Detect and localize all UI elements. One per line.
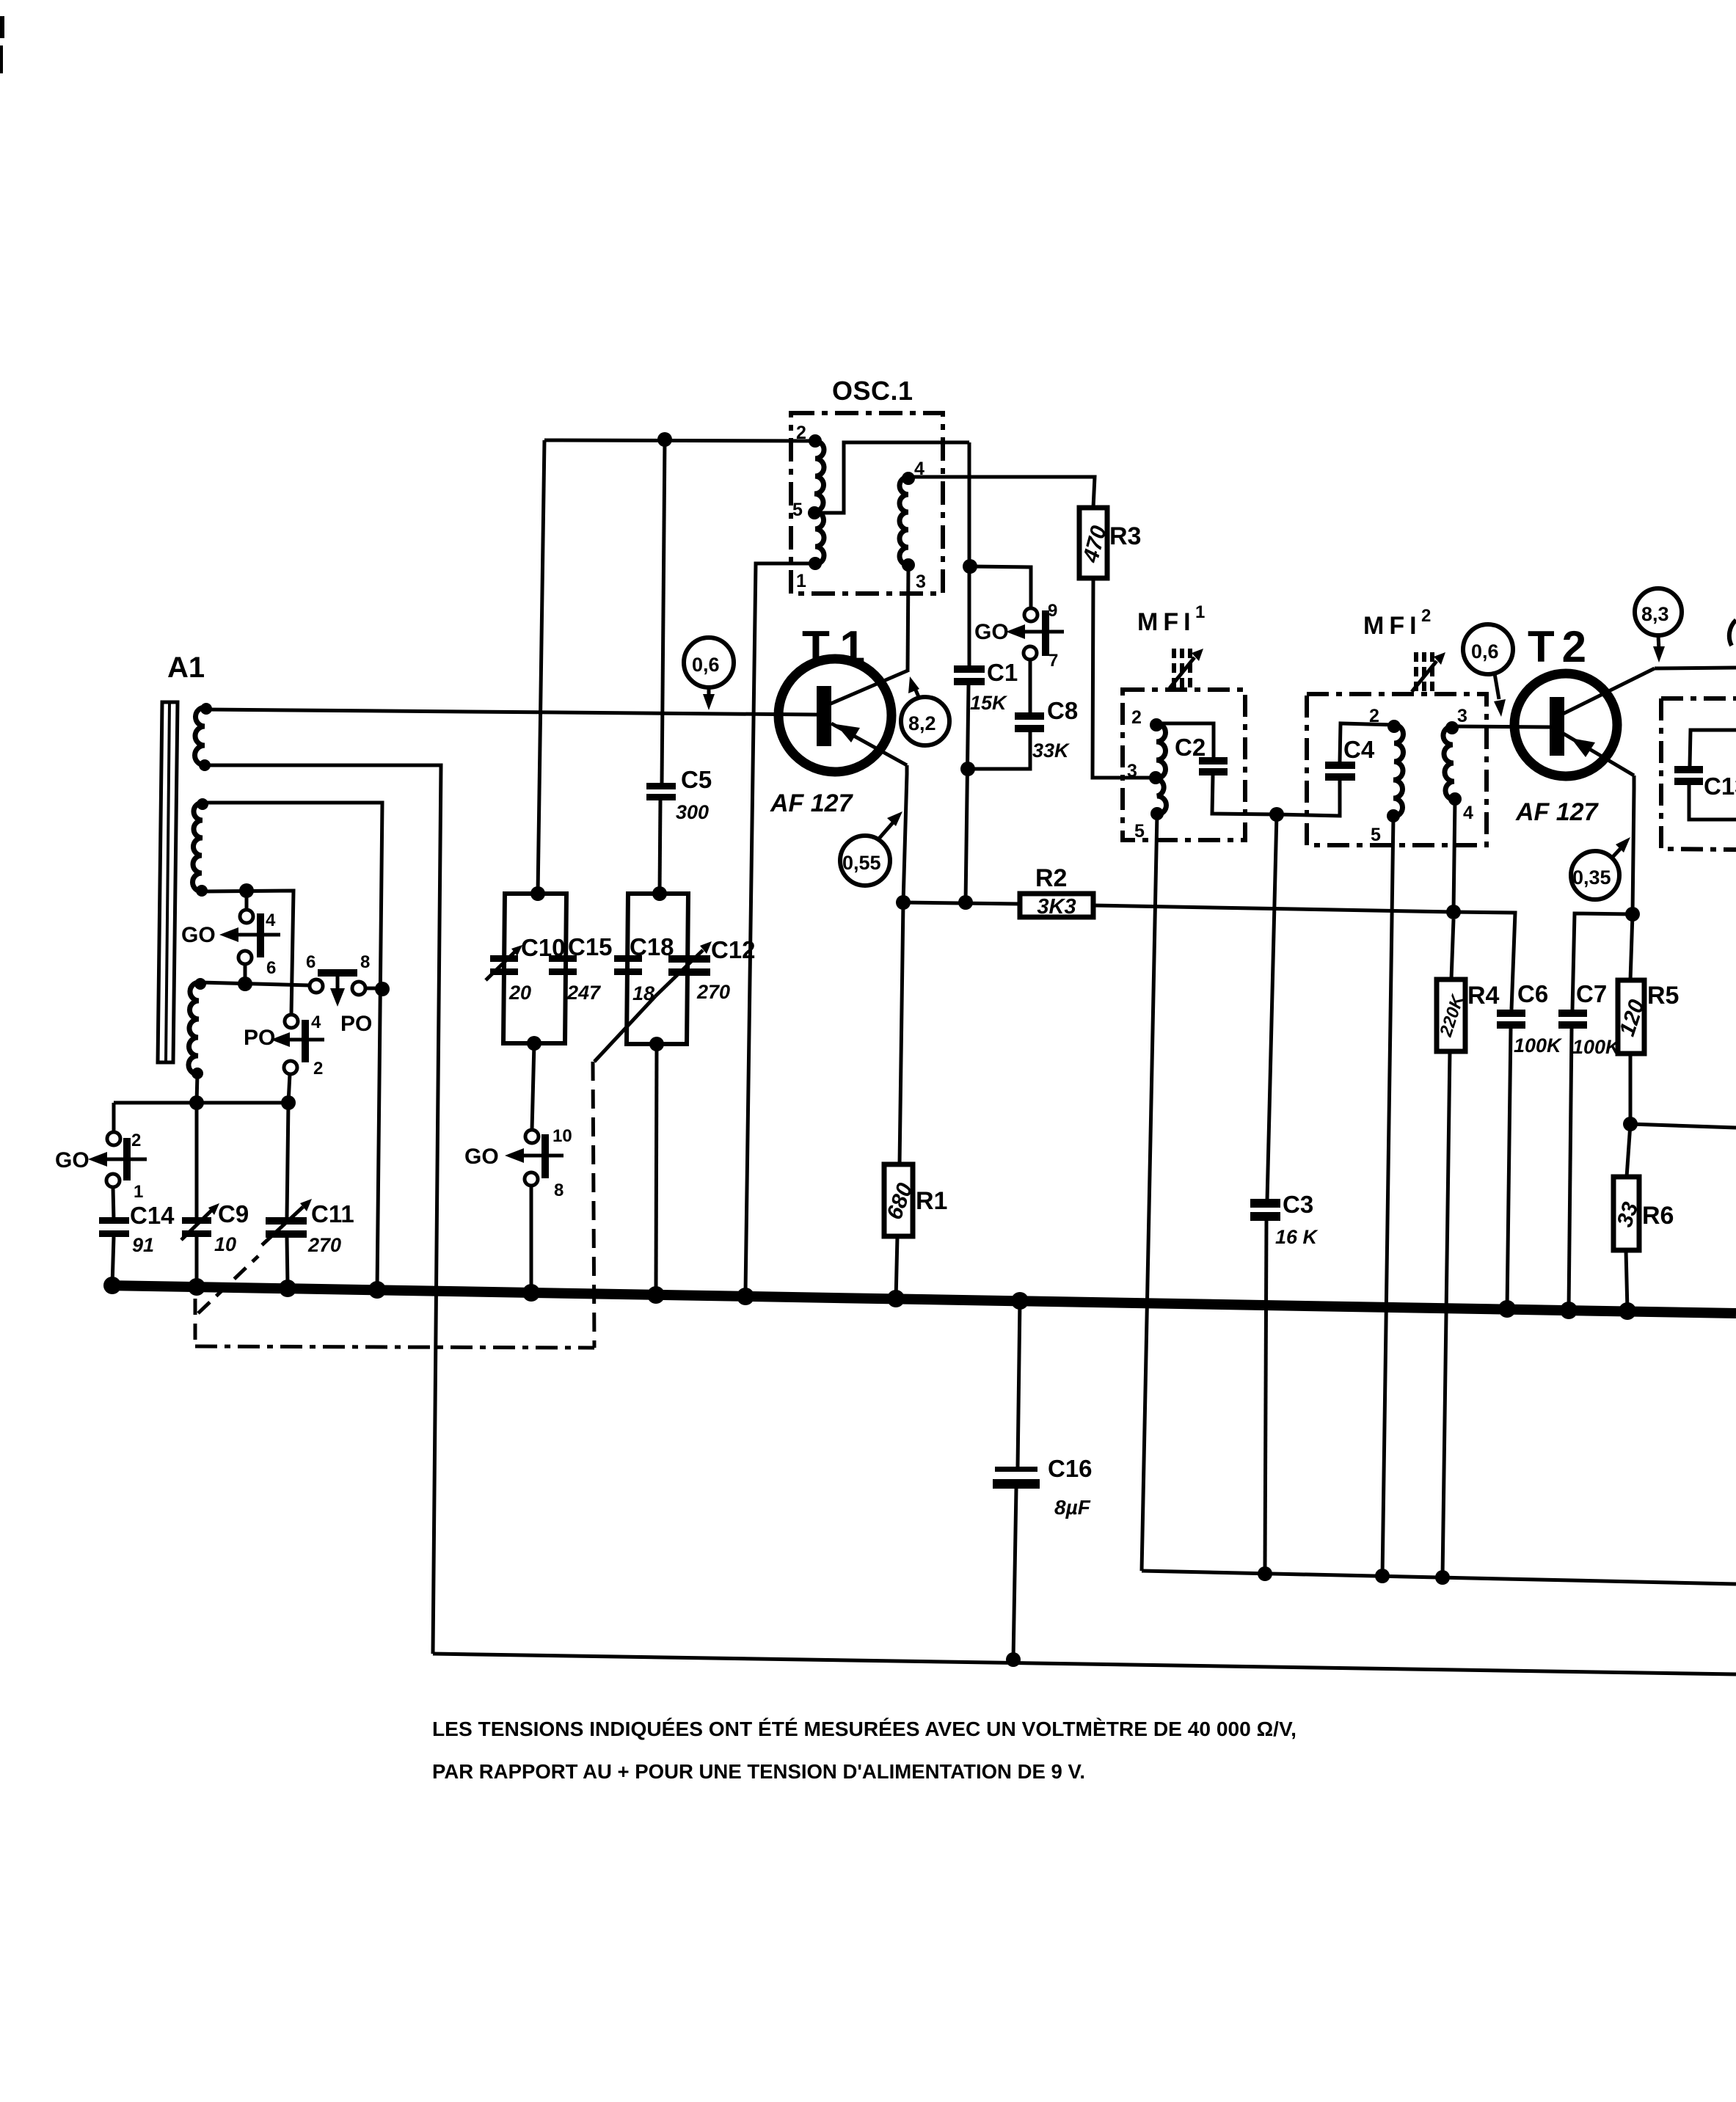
svg-text:247: 247 — [566, 982, 602, 1004]
svg-text:0,6: 0,6 — [692, 654, 720, 676]
MFI2 primary coil pins 2-5 — [1393, 725, 1404, 817]
svg-text:91: 91 — [132, 1234, 154, 1256]
MFI1 tuning slug — [1170, 649, 1203, 690]
wire T1 collector riser — [906, 671, 910, 672]
svg-text:5: 5 — [792, 500, 803, 520]
svg-text:C5: C5 — [681, 766, 712, 793]
capacitor C4 — [1325, 736, 1375, 781]
svg-text:3K3: 3K3 — [1037, 895, 1076, 919]
wire PO-8 to vertical — [365, 987, 382, 990]
wire C9 to bus — [195, 1237, 199, 1285]
wire inter-MFI node down through C3 — [1267, 814, 1277, 1200]
gang link dashed right riser — [593, 1062, 594, 1348]
wire T1 emitter down — [903, 765, 907, 902]
svg-text:MFI: MFI — [1363, 612, 1422, 640]
svg-text:5: 5 — [1134, 821, 1145, 842]
bus node PO feed — [368, 1281, 386, 1299]
wire emitter row to R2 — [903, 902, 1020, 904]
voltage 0,6 at T2 base — [1463, 624, 1513, 717]
switch GO (contacts 4/6) — [181, 910, 280, 978]
wire OSC1 pin3 to T1 collector riser — [908, 565, 908, 671]
bus node C16 — [1011, 1292, 1029, 1310]
svg-text:300: 300 — [676, 801, 709, 823]
wire node to R6 — [1627, 1124, 1630, 1177]
voltage 0,55 at T1 emitter lead — [840, 811, 902, 886]
capacitor C1 15K — [954, 659, 1018, 714]
svg-text:1: 1 — [1195, 602, 1205, 622]
svg-text:3: 3 — [1457, 706, 1467, 726]
resistor R1 680 — [882, 1164, 947, 1236]
svg-text:C3: C3 — [1283, 1191, 1313, 1218]
wire C13 bottom stub — [1689, 785, 1736, 820]
svg-text:AF 127: AF 127 — [1515, 798, 1600, 826]
svg-text:C14: C14 — [130, 1202, 175, 1229]
svg-text:8,2: 8,2 — [908, 712, 936, 734]
wire MFI2 pin4 down to AGC node — [1454, 799, 1455, 912]
svg-text:R5: R5 — [1647, 982, 1679, 1010]
capacitor C7 100K — [1558, 980, 1622, 1058]
svg-text:MFI: MFI — [1137, 608, 1196, 636]
svg-text:16 K: 16 K — [1275, 1226, 1319, 1248]
svg-text:15K: 15K — [970, 692, 1008, 714]
node C10/C15 top — [530, 886, 545, 901]
node emitter/R1 — [896, 895, 911, 910]
wire L2 bottom to PO(4,2) feed — [202, 891, 293, 1015]
gang link dashed left riser — [194, 1299, 197, 1345]
MFI1 coil pins 2-3-5 — [1156, 723, 1167, 814]
gang link dashed diagonal to C11 — [198, 1256, 258, 1313]
node C11 top — [281, 1095, 296, 1110]
wire C9/C11 top header — [114, 1101, 288, 1105]
node T2 emitter / R5 — [1625, 907, 1640, 922]
svg-text:33K: 33K — [1032, 740, 1071, 762]
svg-text:2: 2 — [1421, 606, 1431, 626]
svg-text:100K: 100K — [1572, 1036, 1622, 1058]
antenna coil L2 (middle winding) — [193, 803, 203, 891]
capacitor C5 300 — [646, 766, 712, 823]
resistor R4 220K — [1436, 979, 1500, 1051]
bus node C11 — [279, 1280, 296, 1297]
cut-off circle at page edge — [1729, 620, 1736, 646]
wire C8 bottom to C1 line — [968, 732, 1030, 769]
wire output to right edge — [1630, 1124, 1736, 1128]
wire GO-8 to bus — [530, 1186, 533, 1292]
bus node C6 — [1498, 1300, 1516, 1318]
wire T2 emitter down — [1633, 776, 1634, 914]
svg-text:3: 3 — [916, 572, 926, 592]
voltage 8,2 at T1 emitter — [901, 676, 949, 745]
wire AGC node to C6 corner — [1454, 912, 1515, 1010]
svg-text:3: 3 — [1127, 761, 1137, 781]
wire GO-4 stub — [245, 891, 249, 910]
switch GO (contacts 9/7) — [974, 601, 1064, 671]
node rail A / MFI2 pin5 — [1375, 1569, 1390, 1583]
wire L3 top to PO-6 — [200, 982, 310, 985]
bus node R6 — [1619, 1302, 1636, 1320]
gang link diagonal C12 tail — [594, 996, 655, 1062]
node C16 lower rail — [1006, 1652, 1021, 1667]
svg-text:C2: C2 — [1175, 734, 1206, 761]
bus node R1 — [887, 1290, 905, 1307]
antenna A1 ferrite rod — [158, 702, 178, 1062]
wire MFI2 pin5 down to rail A — [1382, 817, 1393, 1577]
node inter-MFI — [1269, 807, 1284, 822]
bus node C14 — [103, 1277, 121, 1294]
svg-text:GO: GO — [464, 1145, 499, 1169]
svg-text:6: 6 — [266, 958, 276, 978]
bus node C18 box — [647, 1286, 665, 1304]
node rail A / R4 — [1435, 1570, 1450, 1585]
svg-text:2: 2 — [1369, 706, 1379, 726]
wire C1 down to emitter row — [966, 685, 969, 902]
svg-text:C7: C7 — [1576, 980, 1607, 1007]
svg-text:OSC.1: OSC.1 — [832, 376, 913, 406]
svg-text:4: 4 — [266, 910, 276, 930]
wire C6 down to bus — [1507, 1029, 1511, 1309]
wire OSC1 pin1 to ground riser — [745, 563, 815, 1292]
capacitor C9 10 (variable) — [181, 1200, 249, 1255]
wire C18 box bottom to bus — [656, 1044, 657, 1292]
bus node GO-8 — [522, 1284, 540, 1302]
capacitor C11 270 (variable) — [262, 1199, 354, 1256]
wire L2 top, right then down to bus — [203, 803, 382, 1289]
MFI2 tuning slug — [1412, 652, 1445, 694]
wire R4 down to rail A — [1443, 1051, 1450, 1577]
capacitor C2 — [1175, 734, 1228, 776]
svg-text:8µF: 8µF — [1054, 1496, 1091, 1519]
antenna coil L1 (top winding) — [195, 707, 206, 765]
capacitor C12 270 (variable) — [655, 936, 756, 1003]
voltage 0,35 at T2 emitter — [1571, 837, 1630, 899]
wire R5 to R6 node — [1629, 1054, 1633, 1124]
svg-text:1: 1 — [134, 1182, 143, 1202]
svg-text:2: 2 — [313, 1059, 323, 1079]
transformer OSC.1 box — [791, 413, 943, 594]
svg-text:C4: C4 — [1343, 736, 1375, 763]
svg-text:C1: C1 — [987, 659, 1018, 686]
svg-text:PAR RAPPORT AU + POUR UNE: PAR RAPPORT AU + POUR UNE TENSION D'ALIM… — [432, 1760, 1085, 1783]
svg-text:0,6: 0,6 — [1471, 641, 1499, 663]
svg-text:0,35: 0,35 — [1572, 866, 1611, 888]
wire C10/C15 box bottom to GO-10 — [532, 1043, 534, 1130]
wire MFI1 pin2 to C2 — [1156, 723, 1214, 757]
svg-text:GO: GO — [974, 620, 1009, 644]
svg-text:R3: R3 — [1109, 522, 1141, 550]
voltage 0,6 at T1 base — [684, 638, 734, 710]
wire C2 bottom to inter-MFI node — [1212, 776, 1277, 814]
resistor R6 33 — [1613, 1177, 1674, 1250]
node R5/R6 output — [1623, 1117, 1638, 1131]
box C10/C15 parallel — [503, 894, 566, 1043]
svg-text:20: 20 — [508, 982, 531, 1004]
node GO-6 on L3 wire — [238, 977, 252, 991]
wire C1 riser — [968, 442, 971, 665]
svg-text:GO: GO — [55, 1148, 90, 1172]
node C9 top — [189, 1095, 204, 1110]
svg-text:C11: C11 — [311, 1200, 354, 1227]
wire OSC1 pin4 to R3 — [908, 477, 1095, 508]
transformer MFI2 box — [1307, 694, 1487, 845]
svg-text:8,3: 8,3 — [1641, 603, 1669, 625]
svg-text:C13: C13 — [1704, 773, 1736, 800]
voltage 8,3 at T2 collector — [1635, 588, 1682, 663]
gang link dash-dot bottom — [195, 1346, 594, 1348]
svg-text:R2: R2 — [1035, 864, 1067, 892]
wire C14 to bus — [112, 1237, 114, 1285]
capacitor C3 16K — [1250, 1191, 1319, 1248]
wire OSC1 pin2 header — [544, 440, 815, 441]
svg-text:2: 2 — [796, 423, 806, 443]
node C8 corner — [960, 762, 975, 776]
capacitor C13 — [1674, 766, 1736, 800]
capacitor C16 8uF (electrolytic) — [993, 1455, 1093, 1519]
switch PO (contacts 4/2) — [244, 1012, 324, 1079]
resistor R2 3K3 — [1020, 864, 1093, 919]
MFI2 secondary coil pins 3-4 — [1443, 726, 1455, 800]
wire C5 to C18 box — [660, 800, 660, 894]
svg-text:9: 9 — [1048, 601, 1057, 621]
node C1 top / GO-9 tap — [963, 559, 977, 574]
wire header down to GO-2 — [112, 1103, 116, 1132]
wire T2 emitter node to C7 — [1572, 913, 1633, 1010]
node C18/C12 bottom — [649, 1037, 664, 1051]
svg-text:R4: R4 — [1467, 982, 1500, 1010]
svg-text:C6: C6 — [1517, 980, 1548, 1007]
node C10/C15 bottom — [527, 1036, 541, 1051]
svg-text:270: 270 — [307, 1234, 341, 1256]
svg-text:C15: C15 — [568, 933, 613, 960]
box C13 (cut at page edge) — [1661, 698, 1736, 850]
svg-text:0,55: 0,55 — [842, 852, 881, 874]
wire T2 collector to right edge — [1655, 668, 1736, 668]
capacitor C10 20 (trimmer) — [486, 934, 566, 1004]
svg-text:6: 6 — [306, 952, 316, 972]
wire C7 down to bus — [1569, 1029, 1572, 1310]
svg-text:8: 8 — [360, 952, 370, 972]
svg-text:R1: R1 — [916, 1187, 947, 1215]
OSC.1 primary coil pins 2-5-1 — [814, 441, 824, 564]
wire R2 to AGC node — [1093, 905, 1454, 912]
svg-text:LES TENSIONS INDIQUÉES ONT: LES TENSIONS INDIQUÉES ONT ÉTÉ MESURÉES … — [432, 1718, 1296, 1740]
svg-text:AF 127: AF 127 — [770, 789, 854, 817]
ground bus (thick) — [106, 1285, 1736, 1313]
svg-text:10: 10 — [552, 1126, 572, 1146]
capacitor C18 18 — [614, 933, 674, 1004]
wire C16 down to lower rail — [1013, 1489, 1016, 1660]
svg-text:R6: R6 — [1642, 1202, 1674, 1230]
wire AGC node down to R4 — [1451, 919, 1454, 979]
node PO-8 / L2-top vertical — [375, 982, 390, 996]
wire tap to GO-9 — [970, 566, 1031, 608]
wire R1 to bus — [896, 1236, 897, 1300]
switch PO (contacts 6/8 horizontal) — [306, 952, 372, 1036]
wire MFI2 pin3 to T2 base — [1452, 726, 1550, 727]
node AGC / R4 — [1446, 905, 1461, 919]
OSC.1 secondary coil pins 4-3 — [900, 477, 908, 565]
wire C16 from bus — [1018, 1301, 1020, 1467]
wire C5 riser — [662, 439, 665, 784]
resistor R5 120 — [1615, 980, 1679, 1054]
svg-text:100K: 100K — [1514, 1034, 1563, 1057]
svg-text:PO: PO — [340, 1012, 372, 1036]
capacitor C8 33K — [1015, 697, 1078, 762]
transistor T1 AF 127 — [770, 659, 908, 817]
bus node OSC1 pin1 — [737, 1288, 754, 1305]
capacitor C14 91 — [99, 1202, 175, 1256]
box C18/C12 parallel — [627, 894, 688, 1044]
svg-text:GO: GO — [181, 923, 216, 947]
svg-text:C9: C9 — [218, 1200, 249, 1227]
svg-text:C16: C16 — [1048, 1455, 1093, 1482]
svg-text:4: 4 — [311, 1012, 321, 1032]
wire L3 bottom down to C9 top wire — [197, 1073, 197, 1103]
svg-text:8: 8 — [554, 1180, 564, 1200]
wire C13 top stub — [1690, 730, 1736, 766]
resistor R3 470 — [1079, 508, 1142, 578]
switch GO (contacts 10/8) — [464, 1126, 572, 1200]
transistor T2 AF 127 — [1514, 668, 1655, 826]
node rail A / C3 — [1258, 1566, 1272, 1581]
svg-text:1: 1 — [796, 571, 806, 591]
wire inter-MFI node to C4 — [1277, 779, 1340, 816]
svg-text:270: 270 — [696, 981, 730, 1003]
svg-text:A1: A1 — [167, 652, 205, 684]
wire emitter to R1 — [900, 902, 903, 1164]
svg-text:C18: C18 — [630, 933, 674, 960]
rail A (AGC return) — [1142, 1571, 1736, 1584]
node C1/R2 row — [958, 895, 973, 910]
svg-text:C8: C8 — [1047, 697, 1078, 724]
svg-text:2: 2 — [1131, 707, 1142, 728]
wire C9 top stub — [195, 1103, 199, 1217]
wire L1 bottom, right then down to lower rail — [205, 765, 441, 1654]
wire R6 down to bus — [1626, 1250, 1627, 1310]
wire emitter node down to R5 — [1630, 914, 1633, 980]
bus node C9 — [188, 1278, 205, 1296]
lower supply rail B — [433, 1654, 1736, 1674]
svg-text:4: 4 — [1463, 803, 1473, 823]
wire GO-6 to L3 top wire — [244, 964, 247, 984]
svg-text:T 2: T 2 — [1528, 622, 1586, 671]
wire L1 top to T1 base — [206, 709, 817, 715]
svg-text:5: 5 — [1371, 825, 1381, 845]
switch GO (contacts 2/1) — [55, 1131, 147, 1202]
bus node C7 — [1560, 1302, 1578, 1319]
wire left riser to C10/C15 box — [538, 440, 544, 894]
svg-text:7: 7 — [1048, 651, 1058, 671]
svg-text:10: 10 — [214, 1233, 236, 1255]
wire C11 stubs — [287, 1103, 288, 1285]
wire C3 down to rail A — [1265, 1221, 1266, 1571]
page edge artifact top-left — [0, 16, 4, 38]
wire GO-7 to C8 — [1029, 660, 1032, 712]
node C5 top feed — [657, 432, 672, 447]
svg-text:PO: PO — [244, 1026, 275, 1050]
node C18/C12 top — [652, 886, 667, 901]
svg-text:2: 2 — [131, 1131, 141, 1150]
capacitor C6 100K — [1497, 980, 1563, 1057]
transformer MFI1 box — [1123, 690, 1245, 840]
wire PO-2 down to C11 top wire — [288, 1074, 290, 1103]
capacitor C15 247 — [549, 933, 613, 1004]
node L2 bottom / GO-4 — [239, 883, 254, 898]
wire R3 bottom to MFI1 pin3 — [1093, 578, 1150, 778]
wire OSC1 pin5 stair to C1 line — [814, 442, 969, 513]
wire GO-1 to C14 — [113, 1187, 114, 1220]
antenna coil L3 (bottom winding) — [189, 982, 200, 1074]
wire MFI1 pin5 down to rail A — [1142, 814, 1157, 1571]
wire C4 top to MFI2 pin2 — [1340, 723, 1394, 762]
